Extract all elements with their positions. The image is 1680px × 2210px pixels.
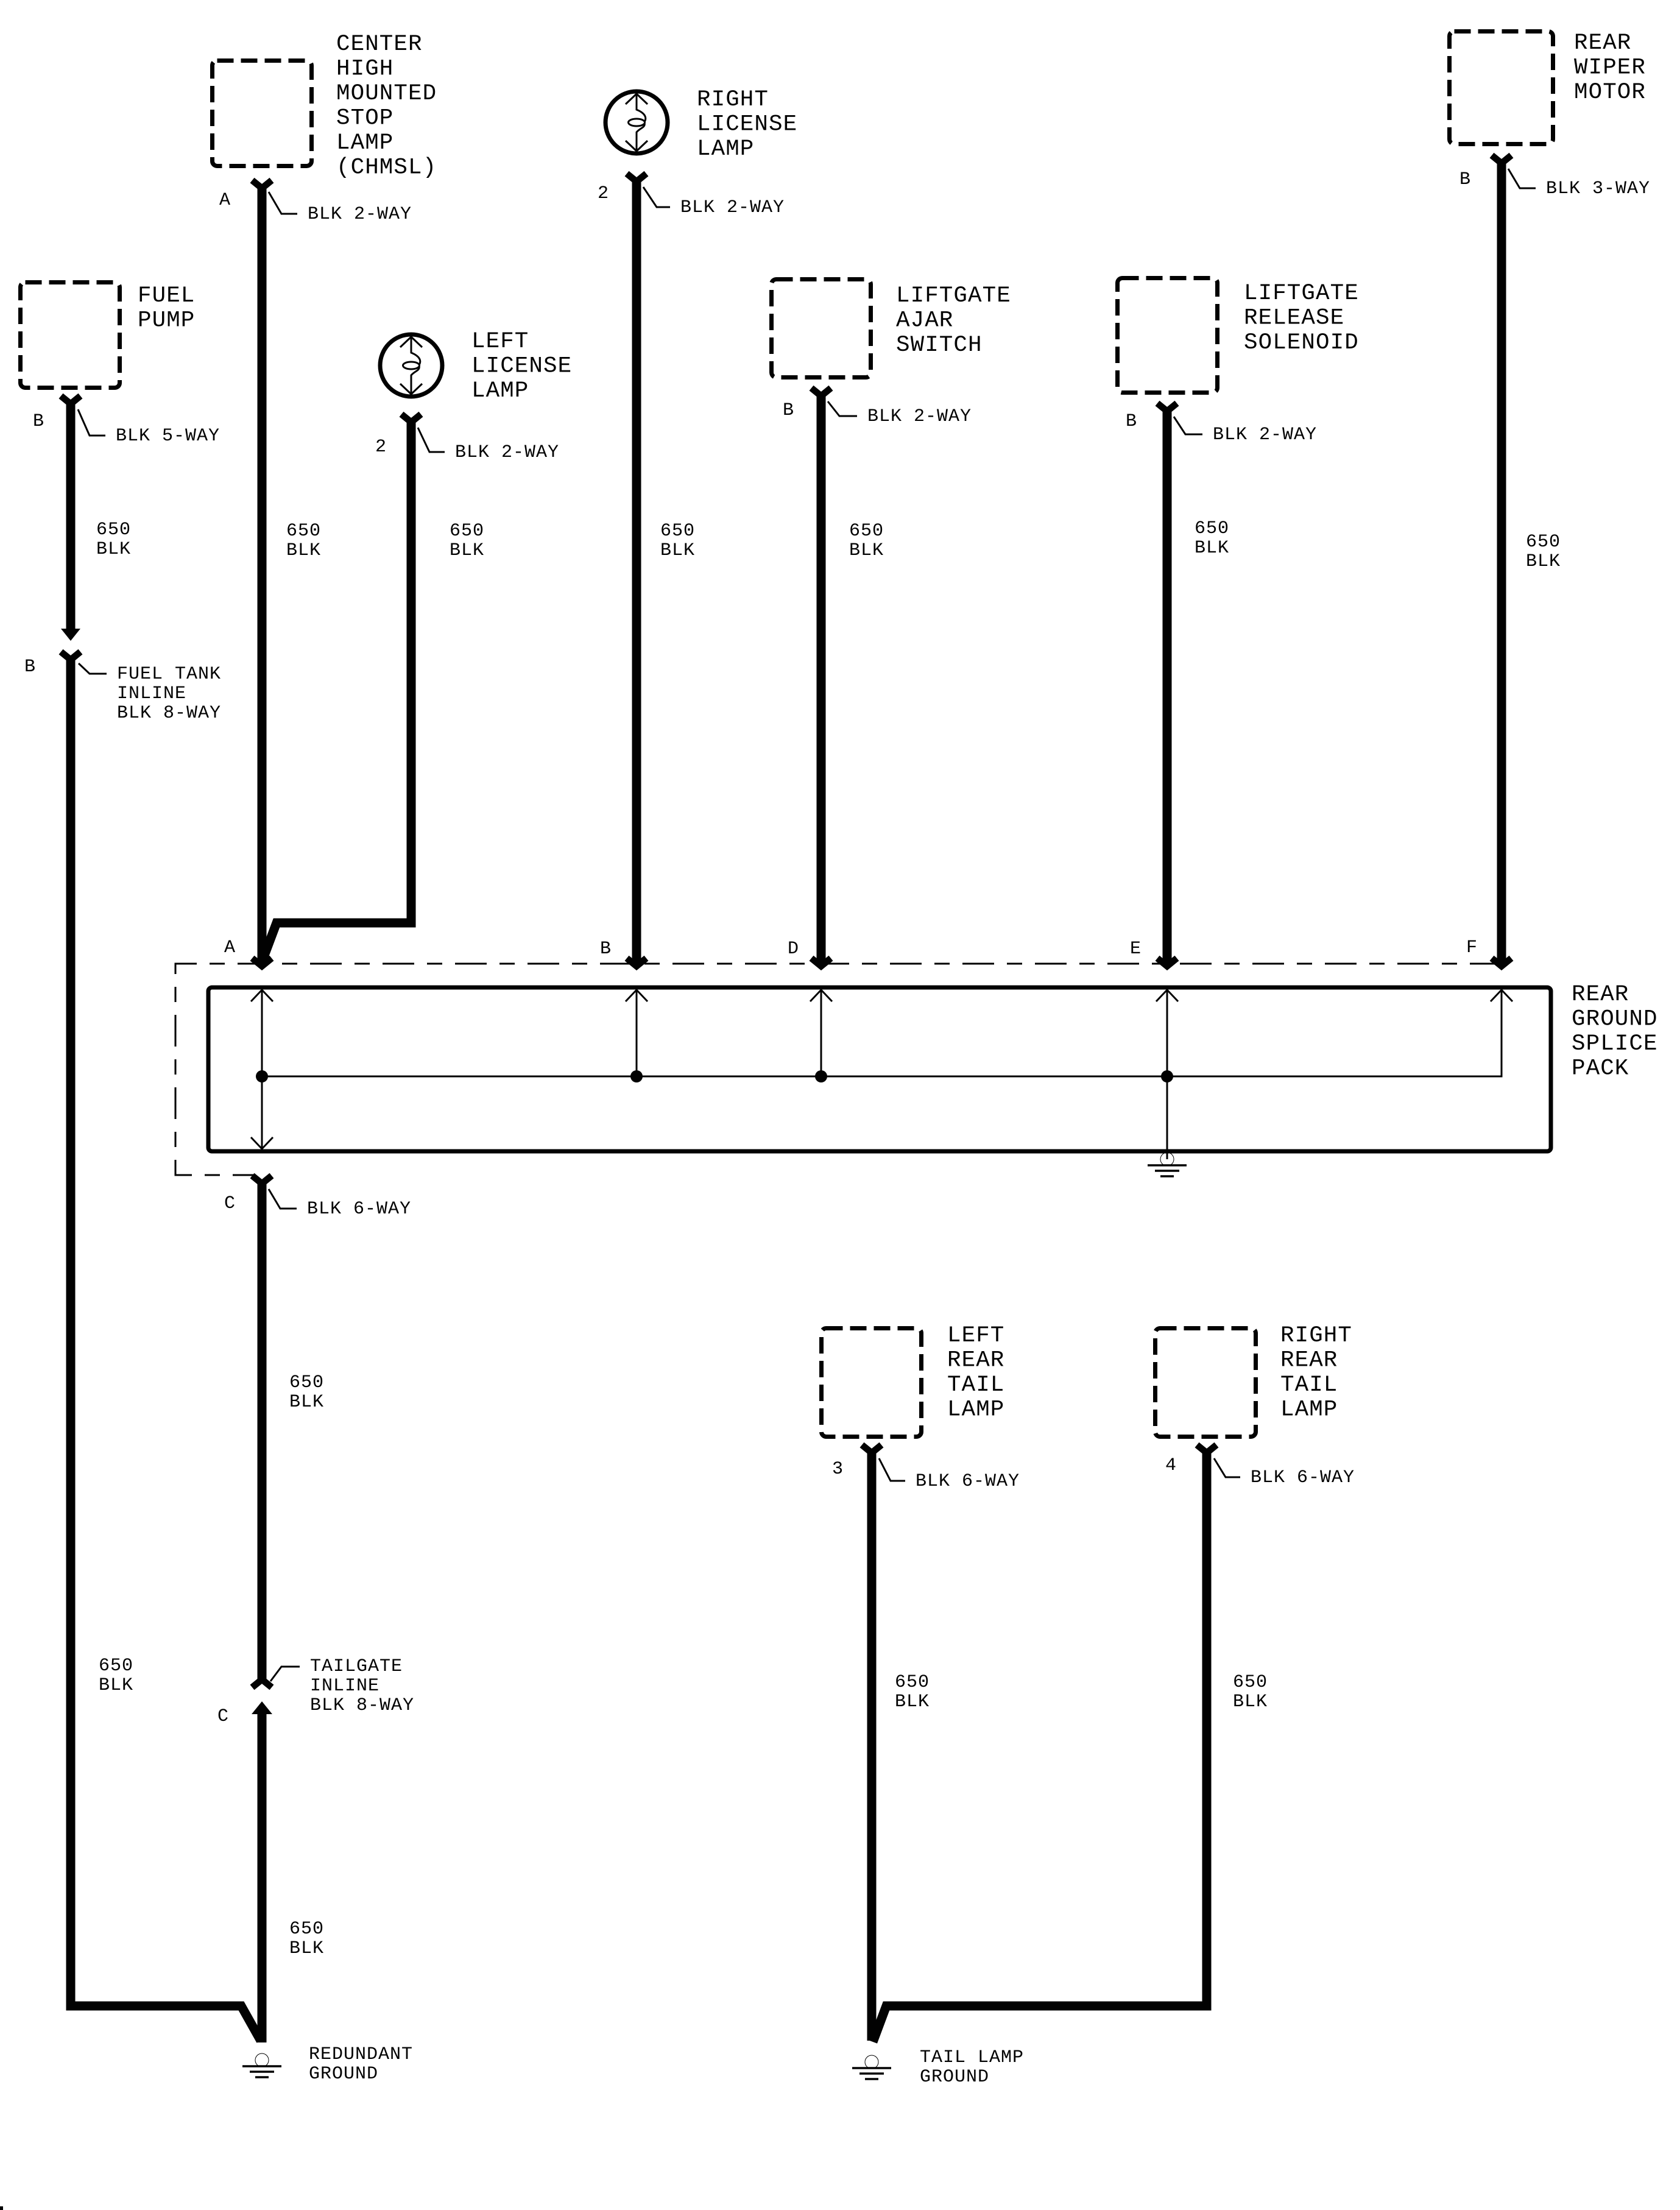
- svg-text:RELEASE: RELEASE: [1244, 306, 1344, 331]
- svg-text:E: E: [1130, 939, 1142, 959]
- svg-text:650: 650: [849, 521, 884, 542]
- svg-text:B: B: [24, 657, 36, 677]
- svg-text:LEFT: LEFT: [947, 1323, 1004, 1349]
- svg-text:B: B: [1459, 169, 1471, 190]
- svg-text:B: B: [1126, 411, 1137, 432]
- svg-text:LIFTGATE: LIFTGATE: [896, 283, 1011, 309]
- svg-text:WIPER: WIPER: [1574, 55, 1646, 81]
- svg-text:BLK 6-WAY: BLK 6-WAY: [307, 1199, 411, 1220]
- svg-text:650: 650: [99, 1656, 133, 1676]
- svg-text:B: B: [600, 939, 612, 959]
- svg-text:650: 650: [289, 1919, 324, 1940]
- svg-text:3: 3: [832, 1459, 844, 1480]
- svg-text:SWITCH: SWITCH: [896, 333, 983, 358]
- svg-text:A: A: [219, 190, 231, 211]
- svg-text:RIGHT: RIGHT: [697, 87, 769, 113]
- svg-text:4: 4: [1165, 1455, 1177, 1476]
- svg-text:BLK: BLK: [849, 540, 884, 561]
- svg-text:BLK: BLK: [450, 540, 484, 561]
- svg-text:LEFT: LEFT: [471, 329, 529, 355]
- svg-text:2: 2: [375, 437, 387, 457]
- svg-text:REAR: REAR: [1574, 30, 1631, 56]
- svg-text:BLK: BLK: [895, 1692, 930, 1712]
- svg-text:REAR: REAR: [1572, 982, 1629, 1008]
- svg-text:BLK 5-WAY: BLK 5-WAY: [116, 426, 220, 447]
- svg-text:BLK 2-WAY: BLK 2-WAY: [680, 197, 785, 218]
- svg-text:BLK: BLK: [96, 539, 131, 560]
- svg-text:BLK: BLK: [286, 540, 321, 561]
- svg-text:LAMP: LAMP: [697, 136, 754, 162]
- svg-text:BLK 2-WAY: BLK 2-WAY: [455, 442, 559, 463]
- svg-text:BLK 6-WAY: BLK 6-WAY: [1251, 1467, 1355, 1488]
- svg-text:BLK 8-WAY: BLK 8-WAY: [117, 703, 221, 724]
- svg-text:FUEL: FUEL: [138, 283, 195, 309]
- svg-text:(CHMSL): (CHMSL): [336, 155, 437, 181]
- svg-text:AJAR: AJAR: [896, 308, 953, 334]
- svg-text:C: C: [217, 1706, 229, 1727]
- svg-text:LAMP: LAMP: [1280, 1397, 1338, 1423]
- svg-text:GROUND: GROUND: [920, 2067, 989, 2088]
- svg-text:C: C: [224, 1193, 236, 1214]
- svg-text:BLK: BLK: [1195, 538, 1229, 559]
- svg-text:CENTER: CENTER: [336, 32, 423, 57]
- svg-text:GROUND: GROUND: [309, 2064, 378, 2085]
- svg-text:LAMP: LAMP: [471, 378, 529, 404]
- svg-text:BLK 2-WAY: BLK 2-WAY: [308, 204, 412, 225]
- svg-text:GROUND: GROUND: [1572, 1007, 1658, 1033]
- svg-text:LICENSE: LICENSE: [697, 112, 797, 138]
- svg-text:LIFTGATE: LIFTGATE: [1244, 281, 1359, 306]
- svg-text:BLK: BLK: [289, 1938, 324, 1959]
- svg-text:LAMP: LAMP: [947, 1397, 1004, 1423]
- svg-text:650: 650: [895, 1672, 930, 1693]
- svg-text:INLINE: INLINE: [117, 683, 186, 704]
- svg-text:BLK 8-WAY: BLK 8-WAY: [310, 1695, 414, 1716]
- svg-text:BLK 3-WAY: BLK 3-WAY: [1546, 178, 1650, 199]
- svg-text:650: 650: [96, 520, 131, 540]
- svg-text:RIGHT: RIGHT: [1280, 1323, 1352, 1349]
- svg-text:650: 650: [450, 521, 484, 542]
- svg-text:650: 650: [1526, 532, 1561, 552]
- svg-text:2: 2: [598, 183, 609, 204]
- svg-text:TAILGATE: TAILGATE: [310, 1656, 403, 1677]
- svg-text:REAR: REAR: [1280, 1348, 1338, 1374]
- svg-text:LAMP: LAMP: [336, 130, 394, 156]
- svg-text:B: B: [33, 411, 44, 432]
- svg-text:TAIL LAMP: TAIL LAMP: [920, 2047, 1024, 2068]
- svg-text:BLK: BLK: [1526, 551, 1561, 572]
- svg-text:BLK: BLK: [289, 1392, 324, 1413]
- svg-text:BLK: BLK: [660, 540, 695, 561]
- svg-text:650: 650: [660, 521, 695, 542]
- svg-text:650: 650: [1195, 518, 1229, 539]
- svg-text:BLK 2-WAY: BLK 2-WAY: [867, 406, 972, 427]
- svg-text:650: 650: [1233, 1672, 1268, 1693]
- svg-text:STOP: STOP: [336, 106, 394, 132]
- svg-text:REDUNDANT: REDUNDANT: [309, 2044, 413, 2065]
- svg-text:D: D: [788, 939, 799, 959]
- svg-text:A: A: [224, 937, 236, 958]
- svg-text:F: F: [1466, 937, 1478, 958]
- svg-text:LICENSE: LICENSE: [471, 354, 572, 380]
- svg-text:650: 650: [289, 1372, 324, 1393]
- svg-text:BLK: BLK: [1233, 1692, 1268, 1712]
- svg-text:B: B: [783, 400, 794, 421]
- svg-text:BLK: BLK: [99, 1675, 133, 1696]
- svg-text:FUEL TANK: FUEL TANK: [117, 664, 221, 685]
- svg-text:SOLENOID: SOLENOID: [1244, 330, 1359, 356]
- svg-text:REAR: REAR: [947, 1348, 1004, 1374]
- svg-text:MOTOR: MOTOR: [1574, 80, 1646, 105]
- svg-text:TAIL: TAIL: [1280, 1372, 1338, 1398]
- svg-text:PUMP: PUMP: [138, 308, 195, 334]
- svg-text:INLINE: INLINE: [310, 1676, 379, 1696]
- svg-text:650: 650: [286, 521, 321, 542]
- svg-text:TAIL: TAIL: [947, 1372, 1004, 1398]
- svg-text:SPLICE: SPLICE: [1572, 1031, 1658, 1057]
- svg-text:HIGH: HIGH: [336, 57, 394, 82]
- svg-text:MOUNTED: MOUNTED: [336, 81, 437, 107]
- svg-text:BLK 2-WAY: BLK 2-WAY: [1213, 425, 1317, 445]
- svg-text:BLK 6-WAY: BLK 6-WAY: [916, 1471, 1020, 1492]
- svg-text:PACK: PACK: [1572, 1056, 1629, 1082]
